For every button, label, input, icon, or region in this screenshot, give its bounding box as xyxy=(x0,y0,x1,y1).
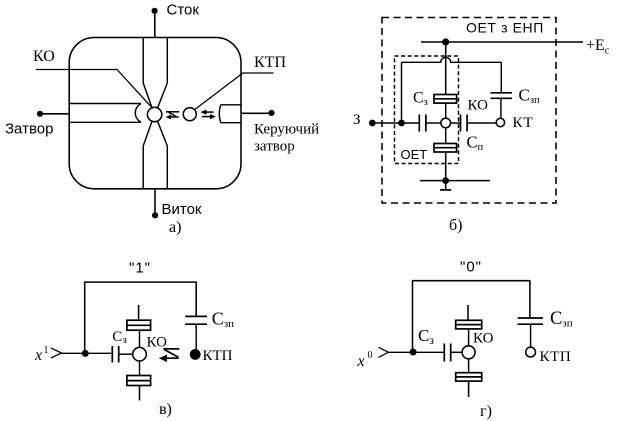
island circle xyxy=(441,118,451,128)
svg-text:а): а) xyxy=(169,219,181,236)
drain lead (Stok) xyxy=(154,11,156,38)
upper tunnel junction xyxy=(456,320,482,329)
wire island to Cp xyxy=(451,122,461,124)
top wire xyxy=(413,281,530,352)
input wire xyxy=(389,351,445,353)
upper tunnel junction xyxy=(434,95,457,104)
svg-text:ОЕТ з ЕНП: ОЕТ з ЕНП xyxy=(466,20,544,36)
gate electrode (left channel) xyxy=(69,104,141,123)
tunneling arrow between KO and KTP xyxy=(166,112,179,117)
island lower wire xyxy=(139,361,141,376)
drain stem wire xyxy=(445,42,447,95)
wire Cz to island xyxy=(119,353,133,355)
input chevron xyxy=(51,348,62,358)
svg-text:КТП: КТП xyxy=(254,54,286,71)
wire Czp to KTP xyxy=(530,324,532,347)
island lower wire xyxy=(468,359,470,373)
island KO circle xyxy=(133,347,147,361)
svg-text:З: З xyxy=(353,112,361,128)
capacitor Cz xyxy=(419,115,426,132)
svg-text:КТ: КТ xyxy=(513,115,534,131)
branch junction dot xyxy=(398,120,405,127)
svg-text:в): в) xyxy=(159,401,172,418)
wire Cp to KT xyxy=(467,122,496,124)
lower stem stub xyxy=(468,381,470,397)
outer dashed box OET z ENP xyxy=(382,18,556,204)
vertical channel lower taper xyxy=(143,121,167,189)
svg-text:1: 1 xyxy=(44,345,49,356)
svg-text:КО: КО xyxy=(473,331,494,347)
island upper stem xyxy=(445,103,447,118)
svg-text:КТП: КТП xyxy=(540,349,572,365)
node KT circle xyxy=(496,118,504,126)
input chevron xyxy=(379,347,389,357)
exchange arrows right of KTP xyxy=(202,112,214,117)
svg-text:б): б) xyxy=(449,217,462,234)
left branch wire xyxy=(401,62,403,123)
capacitor Czp xyxy=(185,316,207,324)
transistor body outline xyxy=(69,38,241,189)
branch wire with hop xyxy=(402,57,502,62)
control gate lead xyxy=(241,112,272,114)
supply bus wire xyxy=(421,41,583,43)
svg-text:г): г) xyxy=(480,403,492,420)
tunneling lightning arrow xyxy=(163,349,179,358)
capacitor Cz xyxy=(112,346,118,363)
top wire xyxy=(85,282,197,353)
gate terminal dot xyxy=(37,111,43,117)
quantum island KO circle xyxy=(147,107,161,121)
gate lead (Zatvor) xyxy=(40,113,69,115)
svg-text:x: x xyxy=(357,353,365,370)
source terminal dot xyxy=(152,212,158,218)
svg-text:"0": "0" xyxy=(460,259,482,276)
lower stem stub xyxy=(139,386,141,401)
trap KTP open circle xyxy=(526,347,536,357)
junction dot xyxy=(410,349,417,356)
capacitor Cp xyxy=(461,115,468,132)
capacitor Czp xyxy=(518,318,543,324)
right branch wire xyxy=(500,62,502,93)
upper stem stub xyxy=(467,305,469,320)
ground stem xyxy=(445,152,447,181)
svg-text:затвор: затвор xyxy=(254,139,295,155)
input wire xyxy=(372,122,419,124)
wire Cz to island xyxy=(451,351,462,353)
wire Czp to KT xyxy=(500,98,502,118)
svg-text:Затвор: Затвор xyxy=(5,121,53,138)
ground bar long xyxy=(420,180,490,182)
svg-text:КТП: КТП xyxy=(203,348,233,364)
lower tunnel junction xyxy=(456,373,482,381)
ground junction dot xyxy=(442,177,449,184)
wire Cz to island xyxy=(426,122,441,124)
island upper wire xyxy=(468,329,470,346)
upper tunnel junction xyxy=(127,320,151,330)
upper stem stub xyxy=(138,305,140,320)
input terminal dot xyxy=(369,120,376,127)
svg-text:x: x xyxy=(34,347,42,364)
control gate terminal dot xyxy=(268,110,274,116)
source lead (Vytok) xyxy=(154,189,156,216)
wire Czp to KTP xyxy=(195,324,197,349)
vertical channel upper taper xyxy=(143,38,167,108)
ground bar short xyxy=(440,189,451,191)
ground stub xyxy=(445,181,447,190)
svg-text:"1": "1" xyxy=(129,260,151,277)
island lower stem xyxy=(445,128,447,144)
trap KTP filled dot xyxy=(190,349,201,360)
svg-text:0: 0 xyxy=(368,350,373,361)
island upper wire xyxy=(139,330,141,347)
svg-text:Сток: Сток xyxy=(167,2,200,19)
drain terminal dot xyxy=(152,8,158,14)
svg-text:КО: КО xyxy=(33,48,55,65)
svg-text:Керуючий: Керуючий xyxy=(254,122,319,138)
capacitor Czp xyxy=(491,93,513,99)
svg-text:КО: КО xyxy=(468,98,489,114)
bus junction dot xyxy=(442,38,449,45)
lower tunnel junction xyxy=(127,376,151,386)
trap KTP circle xyxy=(183,108,196,121)
inner dashed box OET xyxy=(395,56,459,164)
lower tunnel junction xyxy=(434,144,457,153)
control gate electrode (right) xyxy=(219,105,241,123)
junction dot xyxy=(82,350,89,357)
island KO circle xyxy=(462,346,475,359)
svg-text:ОЕТ: ОЕТ xyxy=(401,147,428,162)
capacitor Cz xyxy=(444,344,450,362)
svg-text:Виток: Виток xyxy=(162,201,202,218)
input wire xyxy=(62,352,113,354)
